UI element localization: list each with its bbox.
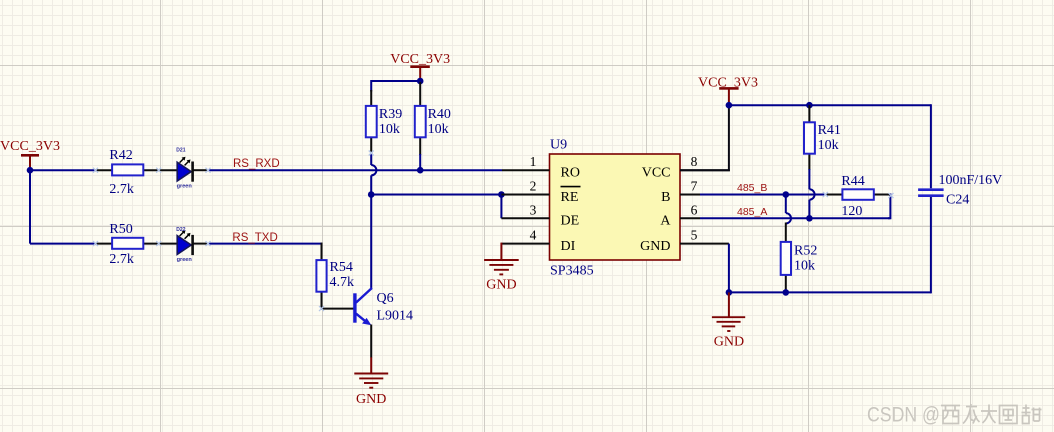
net label RS_RXD [233, 158, 280, 170]
resistor R39 [366, 90, 402, 154]
wire RS_RXD net [208, 169, 503, 171]
svg-text:R42: R42 [109, 148, 132, 163]
svg-text:3: 3 [530, 202, 537, 217]
svg-text:10k: 10k [818, 138, 839, 153]
svg-text:R50: R50 [109, 222, 132, 237]
pin 7 B [661, 179, 700, 205]
capacitor C24 [918, 104, 1002, 293]
LED D22 [176, 227, 207, 263]
svg-text:7: 7 [691, 179, 698, 194]
pin 5 GND [640, 228, 729, 254]
svg-text:R44: R44 [841, 174, 864, 189]
wire RE to DE drop [500, 194, 502, 219]
resistor R42 [95, 148, 178, 197]
wire 485_A net [700, 217, 890, 219]
svg-text:2.7k: 2.7k [109, 252, 133, 267]
resistor R52 [781, 223, 818, 293]
pin 3 DE [501, 202, 579, 228]
node RE junction [498, 191, 505, 198]
wire VCC rail to C24 [729, 104, 931, 106]
wire R41 down with hop over B [809, 169, 814, 218]
resistor R54 [316, 243, 354, 310]
net label 485_A [737, 206, 767, 218]
svg-text:RS_TXD: RS_TXD [232, 232, 277, 244]
LED D21 [176, 148, 207, 190]
wire rail to R42 [29, 169, 96, 171]
svg-text:RE: RE [561, 190, 579, 205]
svg-text:R52: R52 [794, 244, 817, 259]
svg-text:RO: RO [561, 166, 580, 181]
node R40/RXD junction [417, 167, 424, 174]
node R41 top junction [806, 102, 813, 109]
svg-text:L9014: L9014 [377, 309, 414, 324]
svg-text:4.7k: 4.7k [330, 275, 355, 290]
resistor R41 [804, 105, 841, 170]
wire R52 drop with hop over A [786, 195, 791, 224]
ground GND (bottom right) [712, 292, 745, 349]
svg-text:GND: GND [714, 335, 744, 350]
node VCC right junction [726, 102, 733, 109]
IC U9 SP3485 [550, 138, 681, 279]
transistor Q6 [353, 288, 413, 325]
svg-text:U9: U9 [550, 138, 567, 153]
watermark CJK glyphs [941, 404, 1042, 424]
wire pin5 down to rail [728, 244, 730, 293]
node collector junction [368, 191, 375, 198]
svg-text:6: 6 [691, 202, 698, 217]
resistor R50 [95, 222, 178, 267]
wire R44 right to A [888, 194, 890, 219]
node R52 bottom junction [783, 289, 790, 296]
svg-text:RS_RXD: RS_RXD [233, 158, 280, 170]
power port VCC_3V3 (top, R39/R40) [390, 52, 450, 81]
svg-text:10k: 10k [428, 122, 449, 137]
wire left rail vertical [29, 170, 31, 243]
wire ground rail bottom right [729, 291, 931, 293]
wire R54 to Q6 base [321, 308, 355, 310]
svg-text:8: 8 [691, 154, 698, 169]
node VCC top junction [417, 78, 424, 85]
pin 2 RE [501, 179, 580, 205]
svg-text:120: 120 [841, 204, 862, 219]
pin 1 RO [502, 154, 580, 180]
svg-text:10k: 10k [379, 122, 400, 137]
svg-text:1: 1 [530, 154, 537, 169]
wire R39 down with hop over RXD [371, 153, 376, 289]
svg-text:4: 4 [530, 228, 537, 243]
svg-text:R41: R41 [818, 123, 841, 138]
node left rail junction [27, 167, 34, 174]
svg-text:GND: GND [486, 278, 516, 293]
pin 8 VCC [642, 154, 730, 180]
wire pin8 up to VCC node [680, 105, 729, 170]
resistor R44 [826, 174, 891, 219]
wire rail to R50 [30, 243, 96, 245]
svg-text:2.7k: 2.7k [109, 182, 133, 197]
svg-text:485_B: 485_B [737, 182, 767, 194]
power port VCC_3V3 (right) [698, 75, 758, 105]
svg-text:GND: GND [640, 239, 670, 254]
svg-text:VCC_3V3: VCC_3V3 [0, 139, 60, 154]
wire VCC top to R39 [371, 81, 420, 92]
ground GND (pin 4 DI) [484, 243, 519, 293]
svg-text:D21: D21 [176, 148, 185, 154]
svg-text:R54: R54 [330, 260, 353, 275]
svg-text:CSDN @: CSDN @ [867, 404, 940, 427]
net label 485_B [737, 182, 767, 194]
svg-text:5: 5 [691, 228, 698, 243]
svg-text:A: A [660, 214, 671, 229]
svg-text:485_A: 485_A [737, 206, 767, 218]
svg-text:VCC: VCC [642, 166, 671, 181]
wire R40 to RXD node [419, 154, 421, 170]
pin 4 DI [501, 228, 575, 254]
wire node to RE/DE [371, 194, 501, 196]
svg-text:10k: 10k [794, 259, 815, 274]
wire 485_B net [700, 194, 827, 196]
svg-text:R39: R39 [379, 107, 402, 122]
svg-text:VCC_3V3: VCC_3V3 [390, 52, 450, 67]
node R41/A junction [806, 215, 813, 222]
off-grid markers (light blue crosses) [93, 151, 894, 312]
node GND rail junction [726, 289, 733, 296]
wire Q6 emitter to GND [370, 325, 372, 358]
svg-text:Q6: Q6 [377, 291, 394, 306]
node B/R52 junction [783, 191, 790, 198]
pin 6 A [660, 202, 700, 228]
resistor R40 [415, 82, 451, 155]
net label RS_TXD [232, 232, 277, 244]
svg-text:SP3485: SP3485 [550, 264, 594, 279]
svg-text:DI: DI [561, 239, 576, 254]
svg-text:green: green [177, 184, 193, 190]
svg-text:C24: C24 [946, 192, 969, 207]
svg-text:100nF/16V: 100nF/16V [939, 173, 1003, 188]
svg-text:D22: D22 [176, 227, 185, 233]
svg-text:DE: DE [561, 214, 580, 229]
svg-text:GND: GND [356, 392, 386, 407]
power port VCC_3V3 (left) [0, 139, 60, 170]
svg-text:B: B [661, 190, 670, 205]
wire RS_TXD net [208, 243, 323, 245]
ground GND (under Q6) [354, 357, 388, 407]
svg-text:R40: R40 [428, 107, 451, 122]
svg-text:green: green [177, 257, 193, 263]
svg-text:2: 2 [530, 179, 537, 194]
watermark CSDN [867, 404, 940, 427]
